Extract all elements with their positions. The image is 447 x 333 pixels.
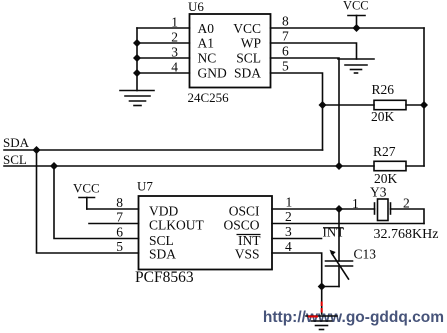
svg-text:U7: U7 bbox=[137, 179, 153, 194]
svg-text:PCF8563: PCF8563 bbox=[135, 269, 194, 286]
svg-text:Y3: Y3 bbox=[370, 185, 387, 200]
wire U7 pin4 VSS bbox=[272, 253, 322, 287]
power VCC symbol at U7 bbox=[79, 198, 95, 210]
svg-text:R26: R26 bbox=[372, 82, 395, 97]
svg-text:3: 3 bbox=[171, 45, 178, 60]
svg-text:8: 8 bbox=[116, 195, 123, 210]
svg-text:VCC: VCC bbox=[343, 0, 369, 13]
ground symbol under U6 pin7 bbox=[338, 59, 374, 73]
wire right pullup vertical bbox=[423, 28, 425, 166]
wire to bottom ground bbox=[321, 287, 323, 315]
wire SDA bus bbox=[4, 149, 323, 151]
svg-text:4: 4 bbox=[285, 239, 292, 254]
junction VSS / C13 bbox=[318, 283, 326, 291]
wire left bus vertical to ground bbox=[136, 28, 138, 91]
svg-text:SDA: SDA bbox=[3, 135, 30, 150]
junction R26 left bbox=[319, 101, 327, 109]
svg-text:1: 1 bbox=[352, 196, 359, 211]
svg-text:3: 3 bbox=[285, 224, 292, 239]
junction SCL tap bbox=[50, 162, 58, 170]
svg-text:GND: GND bbox=[198, 66, 227, 81]
IC U6 body bbox=[190, 14, 271, 88]
svg-text:2: 2 bbox=[285, 209, 292, 224]
wire U6 pin8 VCC net bbox=[271, 27, 425, 29]
svg-text:7: 7 bbox=[282, 29, 289, 44]
svg-text:VSS: VSS bbox=[235, 247, 260, 262]
wire SDA to U7 pin5 bbox=[37, 150, 139, 253]
resistor R26 bbox=[323, 100, 425, 109]
wire U7 pin2 OSCO bbox=[272, 223, 424, 225]
wire SCL bus bbox=[4, 165, 339, 167]
svg-text:4: 4 bbox=[171, 60, 178, 75]
junction NC pin3 bbox=[133, 54, 141, 62]
svg-text:VCC: VCC bbox=[233, 21, 261, 36]
svg-text:A0: A0 bbox=[198, 21, 215, 36]
ground symbol bottom bbox=[306, 316, 337, 330]
svg-text:VCC: VCC bbox=[73, 181, 100, 196]
ground symbol under U6 left bbox=[120, 91, 154, 106]
junction R26 right bbox=[420, 101, 428, 109]
wire U6 pin3 bbox=[137, 57, 190, 59]
svg-text:6: 6 bbox=[282, 44, 289, 59]
svg-text:SCL: SCL bbox=[3, 152, 27, 167]
svg-text:INT: INT bbox=[323, 225, 345, 240]
svg-text:1: 1 bbox=[286, 195, 293, 210]
svg-text:OSCO: OSCO bbox=[223, 218, 259, 233]
svg-text:5: 5 bbox=[282, 59, 289, 74]
wire U7 pin8 VDD bbox=[87, 208, 139, 210]
svg-text:VDD: VDD bbox=[149, 204, 178, 219]
svg-text:U6: U6 bbox=[188, 0, 204, 14]
svg-text:CLKOUT: CLKOUT bbox=[149, 218, 204, 233]
IC U7 body bbox=[139, 196, 273, 270]
wire U7 pin1 OSCI bbox=[272, 208, 375, 210]
junction R27 left on SCL bbox=[335, 162, 343, 170]
wire SCL to U7 pin6 bbox=[54, 166, 139, 239]
power VCC symbol top bbox=[348, 16, 365, 29]
wire U6 pin4 bbox=[137, 72, 190, 74]
crystal Y3 bbox=[375, 199, 425, 224]
wire U7 pin3 INT stub bbox=[272, 238, 322, 240]
svg-text:R27: R27 bbox=[373, 144, 396, 159]
svg-text:2: 2 bbox=[171, 30, 178, 45]
junction SDA tap bbox=[33, 146, 41, 154]
junction A1 pin2 bbox=[133, 39, 141, 47]
wire U6 pin5 SDA drop bbox=[271, 73, 323, 150]
svg-text:2: 2 bbox=[403, 196, 410, 211]
svg-text:OSCI: OSCI bbox=[229, 204, 260, 219]
svg-text:20K: 20K bbox=[371, 109, 395, 124]
svg-text:NC: NC bbox=[198, 51, 217, 66]
svg-text:C13: C13 bbox=[354, 247, 377, 262]
capacitor C13 trimmer bbox=[322, 209, 353, 287]
svg-text:SDA: SDA bbox=[149, 247, 176, 262]
wire U7 pin7 CLKOUT stub bbox=[89, 223, 139, 225]
svg-text:1: 1 bbox=[171, 15, 178, 30]
wire U6 pin6 SCL drop bbox=[271, 58, 340, 166]
svg-text:WP: WP bbox=[241, 36, 261, 51]
wire U6 pin7 to ground bbox=[271, 43, 357, 59]
svg-text:http://www.go-gddq.com: http://www.go-gddq.com bbox=[263, 309, 444, 326]
resistor R27 bbox=[339, 161, 424, 170]
red marks over bottom wire bbox=[308, 302, 322, 317]
svg-text:SDA: SDA bbox=[234, 66, 261, 81]
svg-text:A1: A1 bbox=[198, 36, 215, 51]
svg-text:6: 6 bbox=[116, 225, 123, 240]
wire U6 pin1 bbox=[137, 27, 190, 29]
junction OSCI / C13 bbox=[335, 205, 343, 213]
svg-text:SCL: SCL bbox=[236, 51, 261, 66]
wire U6 pin2 bbox=[137, 42, 190, 44]
svg-text:8: 8 bbox=[282, 14, 289, 29]
svg-text:7: 7 bbox=[116, 210, 123, 225]
svg-text:32.768KHz: 32.768KHz bbox=[374, 227, 439, 242]
junction VCC tap bbox=[353, 24, 361, 32]
junction GND pin4 bbox=[133, 69, 141, 77]
svg-text:5: 5 bbox=[116, 239, 123, 254]
svg-text:24C256: 24C256 bbox=[188, 90, 230, 105]
